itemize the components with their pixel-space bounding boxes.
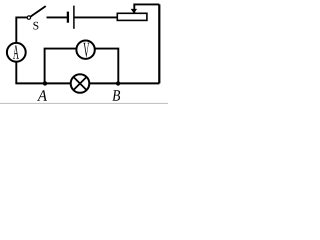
bottom grey border line (0, 102, 168, 104)
ammeter A1 (7, 43, 26, 62)
lamp L1 (71, 74, 90, 93)
node A junction dot (43, 81, 47, 85)
wire right vertical (158, 4, 160, 83)
rheostat body R (117, 13, 147, 20)
label B (112, 90, 120, 100)
wire battery to rheostat (74, 16, 117, 18)
wire switch to battery (47, 16, 68, 18)
node B junction dot (116, 81, 120, 85)
wire top-left corner and left vertical (16, 17, 27, 83)
label A (37, 90, 47, 100)
wire slider arm to top-right corner (134, 4, 159, 13)
wire bottom rail (15, 82, 159, 84)
wire voltmeter parallel loop (45, 49, 119, 84)
rheostat slider arrowhead (131, 9, 137, 13)
switch S (27, 6, 46, 19)
label S (33, 22, 38, 30)
battery cell (68, 6, 74, 29)
voltmeter V1 (76, 41, 94, 59)
